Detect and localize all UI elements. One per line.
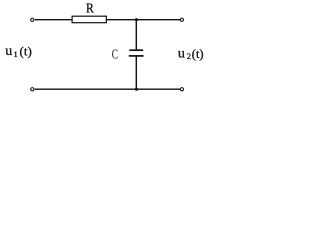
svg-text:R: R (86, 0, 94, 16)
capacitor C bottom plate (129, 55, 144, 57)
label u2(t) output voltage (178, 46, 204, 61)
terminal bottom-left open circle (31, 88, 34, 91)
node IN terminal (top-left open circle) (31, 18, 34, 21)
capacitor C top plate (129, 49, 143, 51)
wire capacitor to bottom rail (135, 56, 137, 89)
node OUT terminal (top-right open circle) (180, 18, 183, 21)
resistor R (72, 16, 106, 23)
svg-text:u: u (5, 44, 12, 59)
terminal bottom-right open circle (180, 88, 183, 91)
bottom return wire (35, 88, 180, 90)
svg-text:C: C (112, 46, 118, 62)
svg-text:(t): (t) (192, 47, 204, 61)
wire input to resistor (35, 19, 72, 21)
svg-text:1: 1 (14, 49, 18, 59)
junction top node (135, 18, 138, 21)
wire junction down to capacitor (135, 20, 137, 50)
svg-text:u: u (178, 46, 185, 61)
junction bottom node (135, 88, 138, 91)
svg-text:2: 2 (187, 51, 191, 61)
label u1(t) input voltage (5, 43, 32, 58)
svg-text:(t): (t) (20, 43, 32, 58)
wire resistor to output terminal (107, 19, 181, 21)
